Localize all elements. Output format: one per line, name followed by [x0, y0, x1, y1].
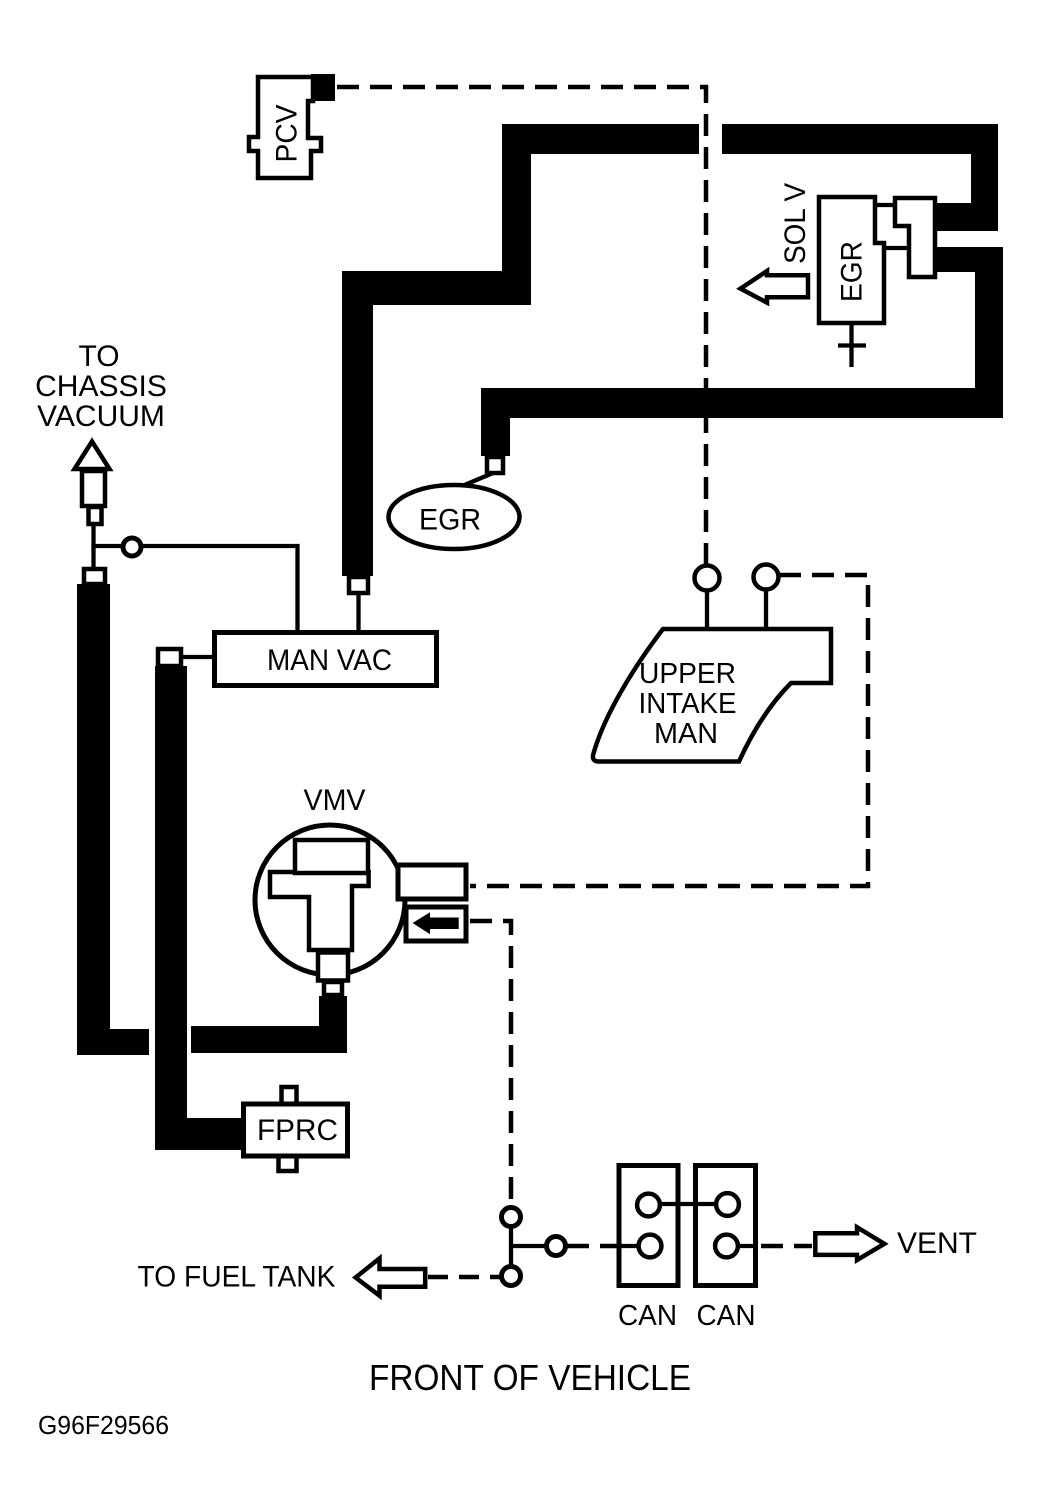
TO FUEL TANK arrow: [356, 1258, 426, 1295]
svg-text:MAN: MAN: [654, 718, 718, 750]
wire dashed from fuel tank arrow to junction: [428, 1275, 501, 1280]
wire thick hose: chassis vacuum down-left run: [77, 584, 149, 1055]
UPPER INTAKE MAN body: [593, 629, 831, 762]
svg-text:VACUUM: VACUUM: [37, 400, 165, 433]
node CAN1 bottom port: [639, 1235, 662, 1258]
svg-text:INTAKE: INTAKE: [639, 688, 737, 720]
wire thin line horizontal to MAN VAC: [94, 546, 298, 633]
wire dashed hose from upper intake man right port to VMV upper port: [470, 575, 868, 886]
EGR solenoid box: [819, 197, 884, 323]
wire thin diagonal from connector to EGR oval: [455, 473, 493, 489]
svg-text:VENT: VENT: [897, 1227, 977, 1260]
wire thick hose: MAN VAC left port down to FPRC: [155, 666, 248, 1150]
VENT arrow: [815, 1227, 884, 1260]
connector square on top of chassis hose: [84, 569, 105, 584]
wire dashed hose from PCV to upper intake man port: [337, 87, 706, 566]
VMV lower port arrow: [413, 912, 459, 934]
node CAN2 bottom port: [715, 1235, 738, 1258]
wire solid into CAN1 bottom circle: [615, 1244, 645, 1248]
EGR solenoid mounting cross: [849, 323, 853, 367]
svg-text:TO: TO: [78, 340, 119, 373]
svg-text:VMV: VMV: [304, 784, 366, 817]
svg-text:SOL V: SOL V: [779, 183, 812, 264]
VMV inner top rect: [295, 840, 368, 873]
FPRC box: [244, 1104, 348, 1156]
svg-text:CAN: CAN: [697, 1300, 756, 1332]
svg-text:CAN: CAN: [618, 1300, 677, 1332]
node junction circle right: [547, 1237, 566, 1256]
connector square at EGR oval hose end: [487, 457, 503, 473]
svg-text:UPPER: UPPER: [639, 658, 736, 690]
wire thick hose: VMV bottom elbow: [191, 996, 347, 1053]
FPRC top tab: [282, 1087, 297, 1104]
TO CHASSIS VACUUM arrow connector: [75, 442, 110, 525]
svg-text:CHASSIS: CHASSIS: [35, 370, 167, 403]
svg-text:FPRC: FPRC: [257, 1114, 338, 1147]
EGR solenoid connector piece: [895, 198, 935, 277]
CAN canister 1: [619, 1166, 678, 1286]
svg-text:EGR: EGR: [419, 504, 481, 537]
EGR oval label: [389, 485, 520, 549]
wire solid branch to third junction circle: [511, 1244, 548, 1248]
node CAN2 top port: [716, 1193, 739, 1216]
UPPER INTAKE MAN ports: wire thin stems: [705, 590, 709, 628]
VMV inner T plunger: [270, 872, 369, 950]
wire thin link EGR box to connector (top): [875, 203, 895, 207]
wire thin link EGR box to connector (bottom): [884, 246, 909, 250]
wire thin line from thick hose connector into MAN VAC top: [356, 592, 360, 633]
PCV valve: [249, 74, 335, 178]
node CAN1 top port: [637, 1194, 660, 1217]
connector square at bottom of MAN VAC thick hose: [349, 577, 368, 593]
node port circle right: [754, 565, 779, 590]
wire thick hose: MAN VAC to top manifold run (upper big hose): [342, 124, 998, 576]
wire thick hose: EGR connector to EGR valve elbow (lower big hose): [481, 247, 1003, 456]
wire solid between CAN top circles: [655, 1202, 722, 1206]
node junction circle bottom: [502, 1267, 521, 1286]
CAN canister 2: [696, 1166, 756, 1286]
TO CHASSIS VACUUM label: [35, 340, 167, 433]
svg-text:G96F29566: G96F29566: [38, 1410, 169, 1440]
VMV right lower port: [406, 907, 466, 941]
VMV valve body circle: [255, 825, 405, 975]
node port circle left: [695, 566, 720, 591]
VMV bottom connector stack: [318, 953, 348, 981]
wire solid CAN2 bottom circle to edge: [730, 1244, 756, 1248]
FPRC bottom tab: [279, 1156, 297, 1171]
SOL V arrow pointing left: [741, 271, 809, 303]
node junction circle near chassis arrow: [123, 538, 141, 556]
svg-text:PCV: PCV: [271, 105, 304, 163]
svg-text:MAN VAC: MAN VAC: [267, 644, 392, 677]
svg-text:FRONT OF VEHICLE: FRONT OF VEHICLE: [369, 1357, 691, 1398]
wire dashed hose from VMV lower port down to fuel tank junction: [470, 921, 511, 1208]
wire solid line between junction circles: [509, 1217, 513, 1276]
wire dashed from junction to CAN1: [567, 1244, 618, 1249]
MAN VAC box: [215, 633, 437, 686]
VMV right upper port: [398, 865, 466, 899]
wire dashed from CAN2 to VENT arrow: [761, 1244, 812, 1249]
svg-text:EGR: EGR: [836, 241, 869, 302]
wire thin line from chassis arrow down to hose connector: [91, 524, 95, 570]
wire thin line from left connector into MAN VAC left: [180, 655, 215, 659]
connector square left of MAN VAC: [158, 649, 181, 666]
node junction circle top: [502, 1208, 521, 1227]
svg-text:TO FUEL TANK: TO FUEL TANK: [138, 1261, 336, 1294]
